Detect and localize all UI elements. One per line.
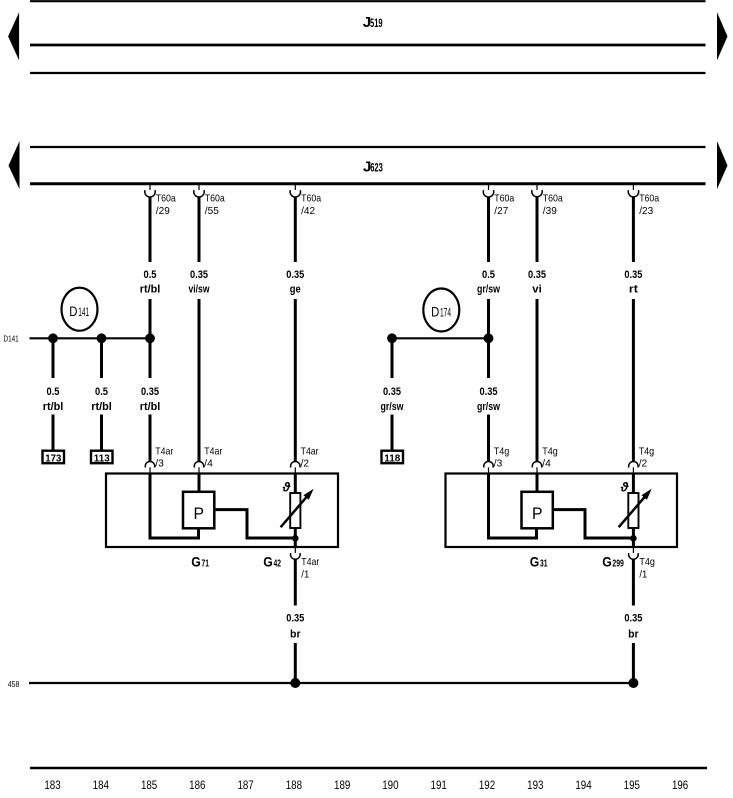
svg-text:br: br bbox=[290, 629, 301, 641]
svg-text:P: P bbox=[193, 504, 204, 523]
svg-text:D141: D141 bbox=[4, 333, 19, 343]
svg-text:/55: /55 bbox=[205, 205, 219, 217]
svg-text:T4g: T4g bbox=[494, 446, 510, 458]
svg-text:/3: /3 bbox=[494, 458, 503, 470]
sensor G42 label bbox=[263, 554, 281, 570]
svg-text:174: 174 bbox=[440, 306, 451, 320]
wire thermistor bottom to junction (right) bbox=[632, 528, 635, 547]
thermistor G42 body bbox=[290, 493, 300, 528]
svg-text:vi: vi bbox=[532, 284, 542, 296]
sender G71 label bbox=[191, 554, 209, 570]
svg-text:rt/bl: rt/bl bbox=[43, 401, 64, 413]
wire rt upper segment bbox=[632, 197, 635, 262]
pressure sensor P box G31 bbox=[522, 492, 553, 529]
wire br upper segment (left) bbox=[294, 559, 297, 605]
wire rt/bl to connector T4ar/3 bbox=[149, 415, 152, 461]
bus J623 right arrow bbox=[717, 141, 728, 189]
svg-text:196: 196 bbox=[672, 780, 688, 792]
wire rt/bl to node D141 bbox=[149, 299, 152, 378]
svg-text:G: G bbox=[263, 554, 273, 570]
wire gr/sw to node D174 bbox=[487, 299, 490, 378]
wire value 0.35 rt/bl (to G71 box) bbox=[140, 386, 161, 413]
connector T4g pin 1 bbox=[629, 547, 655, 581]
svg-text:T4g: T4g bbox=[639, 556, 655, 568]
svg-text:br: br bbox=[628, 629, 639, 641]
svg-text:173: 173 bbox=[45, 453, 61, 464]
svg-text:P: P bbox=[532, 504, 543, 523]
wire br upper segment (right) bbox=[632, 559, 635, 605]
junction dot D174 right bbox=[484, 333, 494, 343]
wire ge lower segment bbox=[294, 299, 297, 461]
svg-text:/1: /1 bbox=[639, 569, 647, 581]
wire vi upper segment bbox=[536, 197, 539, 262]
svg-text:T4ar: T4ar bbox=[301, 556, 319, 568]
wire br lower segment (left) bbox=[294, 643, 297, 683]
wire rt lower segment bbox=[632, 299, 635, 461]
control unit J623 label bbox=[363, 158, 383, 175]
svg-text:G: G bbox=[191, 554, 201, 570]
wire gr/sw to connector T4g/3 bbox=[487, 415, 490, 461]
wire inside box from P sensor to junction bbox=[215, 510, 296, 538]
connector T4g pin 4 bbox=[532, 446, 558, 474]
svg-text:0.35: 0.35 bbox=[624, 613, 642, 625]
svg-text:183: 183 bbox=[44, 780, 60, 792]
wire value 0.5 rt/bl (terminal 173 branch) bbox=[43, 386, 64, 413]
svg-text:T60a: T60a bbox=[494, 193, 514, 205]
svg-text:194: 194 bbox=[575, 780, 592, 792]
svg-text:/2: /2 bbox=[301, 458, 310, 470]
svg-text:299: 299 bbox=[612, 558, 624, 570]
junction dot D141 left bbox=[48, 333, 58, 343]
wire node D141 horizontal bbox=[30, 337, 151, 339]
svg-text:0.35: 0.35 bbox=[383, 386, 401, 398]
splice D174 circle bbox=[423, 289, 459, 332]
svg-text:185: 185 bbox=[141, 780, 157, 792]
svg-text:rt/bl: rt/bl bbox=[91, 401, 112, 413]
wire vi lower segment bbox=[536, 299, 539, 461]
wire rt/bl upper segment bbox=[149, 197, 152, 262]
wire stub to terminal 113 upper bbox=[100, 338, 103, 378]
sensor G299 label bbox=[602, 554, 624, 570]
wire value 0.35 gr/sw (terminal 118 branch) bbox=[381, 386, 404, 413]
bus J623 lower rail line bbox=[30, 182, 706, 185]
grid baseline bbox=[30, 767, 707, 769]
wire inside box from pin 4 to P sensor top bbox=[198, 474, 201, 493]
svg-text:gr/sw: gr/sw bbox=[477, 284, 500, 296]
junction dot D141 right bbox=[145, 333, 155, 343]
wire vi/sw upper segment bbox=[198, 197, 201, 262]
svg-text:T4ar: T4ar bbox=[204, 446, 222, 458]
svg-text:0.5: 0.5 bbox=[47, 386, 60, 398]
splice D141 circle bbox=[62, 288, 98, 331]
junction dot ground left bbox=[290, 678, 300, 688]
bus J519 upper rail line bbox=[30, 0, 706, 2]
wire stub to terminal 118 upper bbox=[391, 338, 394, 378]
wire gr/sw upper segment bbox=[487, 197, 490, 262]
svg-text:192: 192 bbox=[479, 780, 495, 792]
junction dot inside box G42 bbox=[292, 535, 299, 542]
wire inside box from pin 2 to thermistor bbox=[294, 474, 297, 495]
svg-text:T4ar: T4ar bbox=[301, 446, 319, 458]
svg-text:T60a: T60a bbox=[639, 193, 659, 205]
wire stub to terminal 173 upper bbox=[52, 338, 55, 378]
connector T4g pin 3 bbox=[484, 446, 510, 474]
svg-text:gr/sw: gr/sw bbox=[381, 401, 404, 413]
svg-text:/27: /27 bbox=[494, 205, 508, 217]
thermistor G299 body bbox=[628, 493, 638, 528]
svg-text:D: D bbox=[431, 305, 439, 320]
svg-text:/3: /3 bbox=[155, 458, 164, 470]
svg-text:193: 193 bbox=[527, 780, 543, 792]
wire vi/sw lower segment bbox=[198, 299, 201, 461]
wire value 0.5 gr/sw bbox=[477, 269, 500, 296]
svg-text:0.35: 0.35 bbox=[190, 269, 208, 281]
svg-text:0.5: 0.5 bbox=[95, 386, 108, 398]
svg-text:T4g: T4g bbox=[542, 446, 558, 458]
svg-text:0.35: 0.35 bbox=[141, 386, 159, 398]
wire ge upper segment bbox=[294, 197, 297, 262]
svg-text:187: 187 bbox=[237, 780, 253, 792]
svg-text:0.5: 0.5 bbox=[482, 269, 495, 281]
svg-text:T60a: T60a bbox=[156, 193, 176, 205]
wire inside box from pin 4 to P sensor top (right) bbox=[536, 474, 539, 493]
component box G31/G299 bbox=[446, 474, 678, 548]
connector T60a pin 29 bbox=[145, 185, 176, 217]
connector T4g pin 2 bbox=[629, 446, 655, 474]
svg-text:/4: /4 bbox=[204, 458, 213, 470]
svg-text:rt/bl: rt/bl bbox=[140, 401, 161, 413]
wire value 0.35 br (right) bbox=[624, 613, 642, 641]
bus J519 lower rail line bbox=[30, 72, 706, 74]
sender G31 label bbox=[530, 554, 548, 570]
svg-text:rt/bl: rt/bl bbox=[140, 284, 161, 296]
svg-text:190: 190 bbox=[382, 780, 398, 792]
svg-text:0.35: 0.35 bbox=[624, 269, 642, 281]
bus J623 upper rail line bbox=[30, 146, 706, 148]
control unit J519 label bbox=[363, 14, 383, 31]
svg-text:519: 519 bbox=[370, 18, 383, 30]
wire stub to terminal 118 lower bbox=[391, 415, 394, 451]
svg-text:195: 195 bbox=[624, 780, 640, 792]
ground wire 458 bbox=[29, 682, 633, 684]
svg-text:gr/sw: gr/sw bbox=[477, 401, 500, 413]
svg-text:0.35: 0.35 bbox=[286, 613, 304, 625]
svg-text:0.35: 0.35 bbox=[286, 269, 304, 281]
svg-text:189: 189 bbox=[334, 780, 350, 792]
svg-text:T60a: T60a bbox=[301, 193, 321, 205]
component box G71/G42 bbox=[106, 474, 338, 548]
svg-text:/29: /29 bbox=[156, 205, 170, 217]
svg-text:0.5: 0.5 bbox=[144, 269, 157, 281]
junction dot D141 middle bbox=[97, 333, 107, 343]
pressure sensor P box G71 bbox=[183, 492, 214, 529]
svg-text:141: 141 bbox=[78, 305, 89, 319]
svg-text:/2: /2 bbox=[639, 458, 648, 470]
wire inside box from pin 2 to thermistor (right) bbox=[632, 474, 635, 495]
wire br lower segment (right) bbox=[632, 643, 635, 683]
connector T4ar pin 3 bbox=[145, 446, 173, 474]
wire value 0.35 vi bbox=[528, 269, 546, 296]
terminal 118 bbox=[382, 451, 404, 465]
wire value 0.5 rt/bl (terminal 113 branch) bbox=[91, 386, 112, 413]
wire inside box from pin 3 to P sensor (right) bbox=[489, 474, 537, 539]
junction dot inside box G299 bbox=[630, 535, 637, 542]
svg-text:623: 623 bbox=[370, 162, 383, 174]
svg-text:42: 42 bbox=[274, 558, 282, 570]
wire value 0.35 vi/sw bbox=[189, 269, 210, 296]
wire value 0.35 ge bbox=[286, 269, 304, 296]
thermistor G42 arrow bbox=[281, 489, 314, 527]
svg-text:118: 118 bbox=[384, 453, 400, 464]
svg-text:vi/sw: vi/sw bbox=[189, 284, 210, 296]
thermistor G299 arrow bbox=[619, 489, 652, 527]
wire value 0.35 gr/sw (to G31 box) bbox=[477, 386, 500, 413]
connector T4ar pin 4 bbox=[194, 446, 222, 474]
wire stub to terminal 173 lower bbox=[52, 415, 55, 451]
svg-text:G: G bbox=[530, 554, 540, 570]
wire stub to terminal 113 lower bbox=[100, 415, 103, 451]
wire thermistor bottom to junction bbox=[294, 528, 297, 547]
svg-text:G: G bbox=[602, 554, 612, 570]
wire inside box from P sensor to junction (right) bbox=[553, 510, 633, 538]
svg-text:/23: /23 bbox=[639, 205, 653, 217]
svg-text:/42: /42 bbox=[301, 205, 315, 217]
bus J519 left arrow bbox=[8, 12, 19, 60]
svg-text:31: 31 bbox=[540, 558, 548, 570]
svg-text:T4g: T4g bbox=[639, 446, 655, 458]
svg-text:184: 184 bbox=[93, 780, 110, 792]
connector T60a pin 23 bbox=[628, 185, 659, 217]
svg-text:71: 71 bbox=[202, 558, 210, 570]
svg-text:T60a: T60a bbox=[543, 193, 563, 205]
junction dot ground right bbox=[628, 678, 638, 688]
svg-text:458: 458 bbox=[8, 679, 20, 689]
svg-text:/1: /1 bbox=[301, 569, 309, 581]
svg-text:ϑ: ϑ bbox=[282, 479, 291, 494]
wire node D174 horizontal bbox=[392, 337, 489, 339]
svg-text:rt: rt bbox=[629, 284, 638, 296]
terminal 173 bbox=[43, 451, 65, 465]
connector T4ar pin 2 bbox=[291, 446, 319, 474]
svg-text:191: 191 bbox=[431, 780, 447, 792]
connector T60a pin 55 bbox=[194, 185, 225, 217]
connector T60a pin 39 bbox=[532, 185, 563, 217]
connector T60a pin 42 bbox=[290, 185, 321, 217]
svg-text:T60a: T60a bbox=[205, 193, 225, 205]
wire inside box from pin 3 to P sensor bbox=[150, 474, 199, 539]
svg-text:0.35: 0.35 bbox=[528, 269, 546, 281]
svg-text:/39: /39 bbox=[543, 205, 557, 217]
svg-text:113: 113 bbox=[94, 453, 110, 464]
svg-text:D: D bbox=[69, 304, 77, 319]
wire value 0.5 rt/bl bbox=[140, 269, 161, 296]
svg-text:188: 188 bbox=[286, 780, 302, 792]
svg-text:0.35: 0.35 bbox=[480, 386, 498, 398]
bus J623 left arrow bbox=[9, 141, 20, 189]
wire value 0.35 br (left) bbox=[286, 613, 304, 641]
wire value 0.35 rt bbox=[624, 269, 642, 296]
bus J519 right arrow bbox=[717, 12, 728, 60]
terminal 113 bbox=[91, 451, 113, 465]
connector T60a pin 27 bbox=[483, 185, 514, 217]
connector T4ar pin 1 bbox=[290, 547, 319, 581]
svg-text:ϑ: ϑ bbox=[620, 479, 629, 494]
junction dot D174 left bbox=[387, 333, 397, 343]
svg-text:/4: /4 bbox=[542, 458, 551, 470]
svg-text:T4ar: T4ar bbox=[155, 446, 173, 458]
svg-text:ge: ge bbox=[290, 284, 301, 296]
bus J519 middle rail line bbox=[30, 44, 706, 47]
svg-text:186: 186 bbox=[189, 780, 205, 792]
